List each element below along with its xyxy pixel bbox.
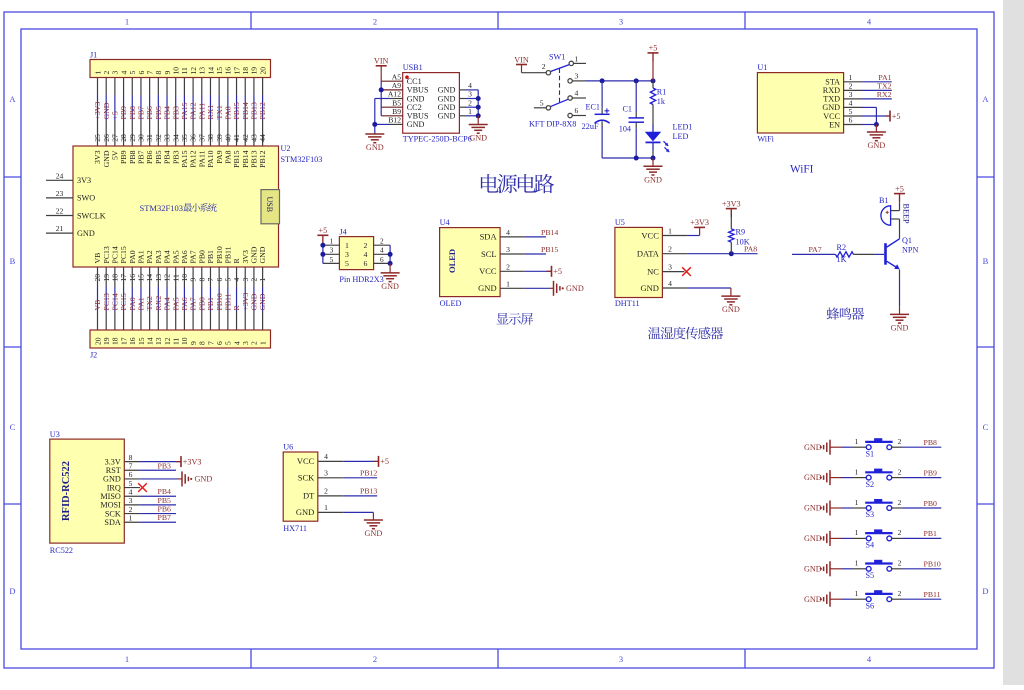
svg-text:GND: GND (366, 143, 384, 152)
svg-text:1: 1 (855, 498, 859, 507)
svg-text:LED1: LED1 (673, 123, 693, 132)
svg-text:20: 20 (258, 67, 267, 75)
svg-text:8: 8 (129, 453, 133, 462)
svg-text:23: 23 (56, 189, 64, 198)
svg-text:B1: B1 (879, 196, 889, 205)
svg-text:SCK: SCK (105, 509, 121, 518)
svg-text:2: 2 (542, 62, 546, 71)
svg-text:R: R (232, 258, 241, 264)
svg-text:4: 4 (232, 341, 241, 345)
svg-text:3: 3 (506, 245, 510, 254)
svg-text:VB: VB (93, 300, 102, 311)
svg-text:PB15: PB15 (232, 150, 241, 167)
svg-text:+5: +5 (380, 457, 389, 466)
svg-text:1: 1 (506, 279, 510, 288)
svg-text:1: 1 (575, 55, 579, 64)
svg-text:S4: S4 (866, 541, 875, 550)
svg-text:16: 16 (224, 67, 233, 75)
svg-text:PC13: PC13 (102, 246, 111, 263)
svg-text:PC14: PC14 (110, 293, 119, 310)
svg-text:12: 12 (163, 337, 172, 345)
svg-text:4: 4 (364, 250, 368, 259)
svg-text:SCL: SCL (481, 249, 497, 259)
svg-text:+5: +5 (319, 226, 328, 235)
svg-text:RST: RST (106, 466, 121, 475)
svg-text:PB11: PB11 (223, 246, 232, 263)
svg-text:41: 41 (232, 134, 241, 142)
svg-text:2: 2 (380, 237, 384, 246)
svg-text:GND: GND (804, 534, 822, 543)
svg-text:30: 30 (137, 134, 146, 142)
svg-text:PB10: PB10 (215, 293, 224, 310)
svg-text:5: 5 (129, 479, 133, 488)
svg-text:GND: GND (258, 246, 267, 263)
svg-text:PB7: PB7 (137, 106, 146, 120)
svg-text:+5: +5 (892, 112, 901, 121)
svg-text:PA15: PA15 (180, 102, 189, 119)
svg-text:PA0: PA0 (128, 297, 137, 310)
svg-text:PB14: PB14 (541, 228, 558, 237)
svg-text:22: 22 (56, 207, 64, 216)
svg-text:PA0: PA0 (128, 250, 137, 263)
svg-text:2: 2 (898, 559, 902, 568)
svg-text:2: 2 (373, 654, 377, 664)
svg-text:MISO: MISO (100, 492, 121, 501)
svg-text:4: 4 (506, 228, 510, 237)
svg-text:1: 1 (330, 237, 334, 246)
svg-text:PB11: PB11 (924, 590, 941, 599)
svg-text:4: 4 (380, 246, 384, 255)
svg-text:3: 3 (619, 654, 623, 664)
svg-text:PC14: PC14 (110, 246, 119, 263)
svg-text:VB: VB (93, 253, 102, 264)
svg-text:WiFi: WiFi (757, 135, 774, 144)
svg-text:+3V3: +3V3 (93, 102, 102, 120)
svg-text:8: 8 (198, 341, 207, 345)
svg-text:SDA: SDA (104, 518, 120, 527)
svg-text:PB0: PB0 (197, 250, 206, 264)
svg-text:GND: GND (868, 141, 886, 150)
svg-text:PB12: PB12 (258, 150, 267, 167)
svg-text:5: 5 (330, 255, 334, 264)
svg-text:PB4: PB4 (163, 106, 172, 120)
svg-text:SDA: SDA (480, 232, 498, 242)
svg-text:39: 39 (215, 134, 224, 142)
svg-text:33: 33 (163, 134, 172, 142)
svg-text:DATA: DATA (637, 249, 660, 259)
svg-text:28: 28 (119, 134, 128, 142)
svg-text:15: 15 (137, 337, 146, 345)
svg-text:PB15: PB15 (232, 102, 241, 119)
svg-text:HX711: HX711 (283, 524, 307, 533)
svg-text:PB4: PB4 (158, 487, 172, 496)
svg-text:6: 6 (137, 71, 146, 75)
svg-text:Pin HDR2X3: Pin HDR2X3 (339, 275, 383, 284)
svg-text:PA11: PA11 (197, 150, 206, 167)
svg-text:PB5: PB5 (154, 106, 163, 120)
svg-text:3V3: 3V3 (241, 250, 250, 264)
svg-text:PA6: PA6 (180, 297, 189, 310)
svg-text:B: B (10, 256, 16, 266)
svg-text:3: 3 (668, 263, 672, 272)
svg-text:VCC: VCC (297, 456, 315, 466)
svg-text:1: 1 (855, 559, 859, 568)
svg-text:PB8: PB8 (924, 438, 938, 447)
svg-text:26: 26 (102, 134, 111, 142)
svg-text:1: 1 (345, 241, 349, 250)
svg-text:PB12: PB12 (360, 468, 377, 477)
svg-text:+3V3: +3V3 (722, 199, 741, 208)
svg-text:14: 14 (206, 67, 215, 75)
svg-text:PB5: PB5 (154, 150, 163, 164)
svg-text:PB10: PB10 (924, 560, 941, 569)
svg-text:1: 1 (855, 437, 859, 446)
svg-text:18: 18 (241, 67, 250, 75)
svg-text:MOSI: MOSI (100, 501, 121, 510)
svg-text:2: 2 (898, 467, 902, 476)
svg-text:7: 7 (129, 461, 133, 470)
svg-text:3: 3 (575, 72, 579, 81)
svg-text:13: 13 (198, 67, 207, 75)
svg-text:2: 2 (898, 498, 902, 507)
svg-text:PB13: PB13 (250, 150, 259, 167)
svg-text:2: 2 (250, 341, 259, 345)
svg-text:SWCLK: SWCLK (77, 211, 106, 220)
svg-text:PA6: PA6 (180, 250, 189, 263)
svg-text:PB3: PB3 (158, 461, 172, 470)
svg-text:25: 25 (93, 134, 102, 142)
svg-text:PA2: PA2 (145, 250, 154, 263)
svg-text:10: 10 (180, 337, 189, 345)
svg-text:GND: GND (804, 504, 822, 513)
svg-text:2: 2 (364, 241, 368, 250)
svg-text:3: 3 (111, 71, 120, 75)
svg-text:4: 4 (668, 279, 672, 288)
svg-text:3: 3 (468, 90, 472, 99)
svg-text:44: 44 (258, 134, 267, 142)
svg-text:OLED: OLED (447, 249, 457, 273)
svg-text:PB13: PB13 (250, 102, 259, 119)
svg-text:GND: GND (250, 246, 259, 263)
svg-text:+5: +5 (110, 111, 119, 119)
svg-text:2: 2 (898, 589, 902, 598)
svg-text:PB13: PB13 (360, 486, 377, 495)
svg-text:DT: DT (303, 491, 315, 501)
svg-text:R9: R9 (736, 228, 746, 237)
svg-text:R: R (232, 305, 241, 311)
svg-text:PB0: PB0 (924, 499, 938, 508)
svg-text:GND: GND (804, 443, 822, 452)
svg-text:PC13: PC13 (102, 293, 111, 310)
svg-text:PB7: PB7 (137, 150, 146, 164)
svg-text:PA1: PA1 (137, 297, 146, 310)
svg-text:3: 3 (330, 246, 334, 255)
svg-text:PB5: PB5 (158, 496, 172, 505)
svg-text:PB6: PB6 (145, 106, 154, 120)
svg-text:17: 17 (119, 337, 128, 345)
svg-text:4: 4 (324, 452, 328, 461)
svg-text:+5: +5 (649, 44, 658, 53)
svg-text:6: 6 (364, 259, 368, 268)
svg-text:PB1: PB1 (206, 297, 215, 311)
svg-text:A5: A5 (392, 72, 401, 81)
svg-text:S3: S3 (866, 510, 875, 519)
svg-text:U1: U1 (757, 63, 767, 72)
svg-text:PC15: PC15 (119, 293, 128, 310)
svg-text:19: 19 (250, 67, 259, 75)
svg-text:5: 5 (128, 71, 137, 75)
svg-text:1: 1 (129, 513, 133, 522)
svg-text:+5: +5 (895, 184, 904, 193)
svg-text:42: 42 (241, 134, 250, 142)
svg-text:27: 27 (110, 134, 119, 142)
svg-text:J1: J1 (90, 51, 97, 60)
svg-text:EC1: EC1 (585, 103, 600, 112)
svg-text:PA7: PA7 (809, 245, 822, 254)
svg-text:+3V3: +3V3 (690, 218, 709, 227)
svg-text:43: 43 (250, 134, 259, 142)
svg-text:RX1: RX1 (206, 105, 215, 120)
svg-text:9: 9 (189, 341, 198, 345)
svg-text:U5: U5 (615, 218, 625, 227)
svg-text:5: 5 (345, 259, 349, 268)
svg-text:PA10: PA10 (206, 150, 215, 167)
svg-text:3V3: 3V3 (93, 150, 102, 164)
svg-text:GND: GND (469, 134, 487, 143)
svg-text:6: 6 (215, 341, 224, 345)
svg-text:PB6: PB6 (158, 505, 172, 514)
svg-text:2: 2 (898, 437, 902, 446)
svg-text:PA11: PA11 (197, 103, 206, 120)
svg-text:C: C (983, 422, 989, 432)
svg-text:GND: GND (804, 473, 822, 482)
svg-text:B: B (983, 256, 989, 266)
svg-text:PB14: PB14 (241, 150, 250, 167)
svg-text:CC1: CC1 (407, 77, 422, 86)
svg-text:VCC: VCC (641, 230, 659, 240)
svg-text:USB1: USB1 (403, 63, 423, 72)
svg-text:RC522: RC522 (50, 546, 73, 555)
svg-text:PB4: PB4 (163, 150, 172, 164)
svg-text:PB8: PB8 (128, 106, 137, 120)
svg-text:PA8: PA8 (223, 150, 232, 163)
svg-text:GND: GND (296, 507, 314, 517)
svg-text:38: 38 (206, 134, 215, 142)
svg-text:B12: B12 (388, 116, 401, 125)
svg-text:S6: S6 (866, 601, 875, 610)
svg-text:PA7: PA7 (189, 250, 198, 263)
svg-text:S1: S1 (866, 449, 875, 458)
svg-text:NPN: NPN (902, 246, 918, 255)
svg-text:10K: 10K (736, 237, 750, 246)
svg-text:PB6: PB6 (145, 150, 154, 164)
svg-text:3: 3 (345, 250, 349, 259)
svg-text:22uF: 22uF (582, 122, 599, 131)
svg-text:37: 37 (197, 134, 206, 142)
svg-text:2: 2 (373, 17, 377, 27)
svg-text:1: 1 (125, 654, 129, 664)
svg-text:PA12: PA12 (189, 150, 198, 167)
svg-text:7: 7 (206, 341, 215, 345)
svg-text:DHT11: DHT11 (615, 299, 640, 308)
svg-text:GND: GND (438, 112, 456, 121)
svg-text:J4: J4 (339, 227, 346, 236)
svg-text:STM32F103: STM32F103 (281, 155, 323, 164)
svg-text:3: 3 (619, 17, 623, 27)
svg-text:3: 3 (324, 469, 328, 478)
svg-text:GND: GND (250, 293, 259, 310)
svg-text:1: 1 (855, 528, 859, 537)
svg-text:PB8: PB8 (128, 150, 137, 164)
svg-text:GND: GND (258, 293, 267, 310)
svg-text:5: 5 (224, 341, 233, 345)
svg-text:6: 6 (849, 116, 853, 125)
svg-text:+3V3: +3V3 (241, 293, 250, 311)
svg-text:Q1: Q1 (902, 236, 912, 245)
svg-text:1: 1 (93, 71, 102, 75)
svg-text:2: 2 (324, 487, 328, 496)
svg-text:C1: C1 (622, 105, 632, 114)
svg-text:D: D (9, 586, 15, 596)
svg-text:KFT DIP-8X8: KFT DIP-8X8 (529, 120, 576, 129)
svg-text:3V3: 3V3 (77, 176, 91, 185)
svg-text:16: 16 (128, 337, 137, 345)
svg-text:RX2: RX2 (877, 90, 892, 99)
svg-text:PB11: PB11 (223, 293, 232, 310)
svg-text:EN: EN (829, 120, 840, 129)
svg-text:LED: LED (673, 132, 689, 141)
svg-text:PA15: PA15 (180, 150, 189, 167)
svg-text:PA5: PA5 (171, 250, 180, 263)
svg-text:R1: R1 (657, 88, 667, 97)
svg-text:PB15: PB15 (541, 245, 558, 254)
svg-text:14: 14 (145, 337, 154, 345)
svg-text:+5: +5 (553, 267, 562, 276)
svg-text:5V: 5V (110, 150, 119, 160)
svg-text:RX2: RX2 (154, 296, 163, 311)
svg-text:U6: U6 (283, 443, 293, 452)
svg-text:1: 1 (324, 503, 328, 512)
svg-text:PA8: PA8 (223, 106, 232, 119)
svg-text:GND: GND (804, 564, 822, 573)
svg-text:R2: R2 (837, 243, 847, 252)
svg-text:GND: GND (77, 229, 95, 238)
svg-text:6: 6 (575, 106, 579, 115)
svg-text:2: 2 (668, 245, 672, 254)
svg-text:GND: GND (478, 283, 496, 293)
svg-text:3.3V: 3.3V (105, 457, 121, 466)
svg-text:10: 10 (172, 67, 181, 75)
svg-text:A: A (9, 94, 16, 104)
svg-text:32: 32 (154, 134, 163, 142)
svg-text:STM32F103: STM32F103 (140, 203, 183, 213)
svg-text:3: 3 (241, 341, 250, 345)
svg-text:PB3: PB3 (171, 106, 180, 120)
svg-text:D: D (982, 586, 988, 596)
svg-text:RFID-RC522: RFID-RC522 (61, 461, 72, 521)
svg-text:1k: 1k (657, 97, 666, 106)
svg-text:PB3: PB3 (171, 150, 180, 164)
svg-text:WiFI: WiFI (790, 164, 814, 176)
svg-text:S5: S5 (866, 571, 875, 580)
svg-text:SWO: SWO (77, 194, 95, 203)
svg-text:PB10: PB10 (215, 246, 224, 263)
svg-text:20: 20 (93, 337, 102, 345)
svg-text:12: 12 (189, 67, 198, 75)
svg-text:S2: S2 (866, 480, 875, 489)
svg-text:PA12: PA12 (189, 102, 198, 119)
svg-text:GND: GND (438, 94, 456, 103)
svg-text:PB12: PB12 (258, 102, 267, 119)
svg-text:U2: U2 (281, 144, 291, 153)
svg-text:U3: U3 (50, 430, 60, 439)
svg-text:104: 104 (619, 125, 631, 134)
svg-text:J2: J2 (90, 351, 97, 360)
svg-text:PA4: PA4 (163, 250, 172, 263)
svg-text:PB0: PB0 (197, 297, 206, 311)
svg-text:A12: A12 (388, 90, 401, 99)
svg-text:BEEP: BEEP (902, 204, 911, 224)
svg-text:PB9: PB9 (119, 106, 128, 120)
svg-text:C: C (10, 422, 16, 432)
svg-text:15: 15 (215, 67, 224, 75)
svg-text:PB7: PB7 (158, 513, 172, 522)
svg-text:8: 8 (154, 71, 163, 75)
svg-text:3: 3 (129, 496, 133, 505)
svg-text:2: 2 (898, 528, 902, 537)
svg-text:PA9: PA9 (215, 150, 224, 163)
svg-text:PA3: PA3 (154, 250, 163, 263)
svg-text:PA4: PA4 (163, 297, 172, 310)
svg-text:OLED: OLED (440, 299, 462, 308)
svg-text:19: 19 (102, 337, 111, 345)
svg-text:24: 24 (56, 171, 64, 180)
svg-text:2: 2 (506, 262, 510, 271)
svg-text:1K: 1K (837, 255, 847, 264)
svg-text:29: 29 (128, 134, 137, 142)
svg-text:GND: GND (566, 284, 584, 293)
svg-text:34: 34 (171, 134, 180, 142)
svg-text:5: 5 (540, 98, 544, 107)
svg-text:GND: GND (407, 94, 425, 103)
svg-text:PB1: PB1 (924, 529, 938, 538)
svg-text:GND: GND (195, 475, 213, 484)
svg-text:18: 18 (111, 337, 120, 345)
svg-text:GND: GND (381, 282, 399, 291)
svg-text:USB: USB (265, 197, 274, 213)
svg-text:GND: GND (365, 529, 383, 538)
svg-text:VCC: VCC (479, 266, 497, 276)
svg-text:7: 7 (145, 71, 154, 75)
svg-text:VIN: VIN (514, 55, 529, 64)
svg-text:2: 2 (129, 505, 133, 514)
svg-text:PB14: PB14 (241, 102, 250, 119)
svg-text:9: 9 (163, 71, 172, 75)
svg-text:GND: GND (640, 283, 658, 293)
svg-text:11: 11 (180, 67, 189, 75)
svg-text:4: 4 (129, 487, 133, 496)
svg-text:35: 35 (180, 134, 189, 142)
svg-text:36: 36 (189, 134, 198, 142)
svg-text:PC15: PC15 (119, 246, 128, 263)
svg-text:31: 31 (145, 134, 154, 142)
svg-text:4: 4 (119, 71, 128, 75)
svg-text:40: 40 (223, 134, 232, 142)
svg-text:PB1: PB1 (206, 250, 215, 264)
svg-text:GND: GND (891, 323, 909, 332)
svg-text:U4: U4 (440, 218, 450, 227)
svg-text:GND: GND (644, 175, 662, 184)
